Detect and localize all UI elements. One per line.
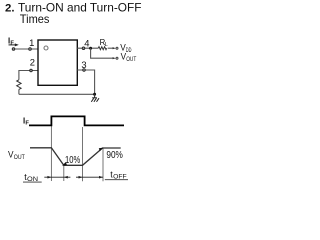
VOUT arrowhead bbox=[113, 57, 116, 59]
pin1 indicator circle bbox=[44, 46, 48, 50]
VDD arrowhead bbox=[113, 47, 116, 49]
svg-text:10%: 10% bbox=[65, 155, 80, 166]
IF waveform trace bbox=[29, 116, 124, 125]
svg-text:OUT: OUT bbox=[126, 56, 136, 63]
ground bbox=[92, 97, 97, 99]
wire pin1 bbox=[14, 48, 39, 50]
90% arrowhead bbox=[99, 148, 104, 152]
node: junction pin4 / VOUT branch bbox=[89, 47, 92, 50]
svg-text:OUT: OUT bbox=[14, 154, 25, 161]
wire RL to VDD terminal bbox=[108, 47, 113, 49]
IF current arrow bbox=[9, 44, 16, 46]
wire VOUT branch bbox=[91, 48, 113, 58]
pin3 dot bbox=[83, 69, 86, 72]
measurement line at IF fall bbox=[82, 127, 84, 181]
wire resistor to bottom rail bbox=[18, 89, 20, 94]
tON label underline bbox=[23, 181, 42, 183]
resistor R (series LED resistor) bbox=[17, 80, 21, 90]
svg-text:2: 2 bbox=[30, 56, 35, 67]
resistor RL bbox=[98, 47, 106, 50]
terminal dot left of pin1 wire bbox=[12, 48, 15, 51]
svg-text:3: 3 bbox=[81, 59, 86, 70]
wire junction to ground bbox=[94, 94, 96, 97]
VDD terminal circle bbox=[116, 47, 118, 49]
svg-text:F: F bbox=[25, 120, 29, 126]
VOUT terminal circle bbox=[116, 57, 118, 59]
svg-text:4: 4 bbox=[84, 37, 89, 48]
svg-text:DD: DD bbox=[126, 47, 132, 54]
VOUT waveform trace bbox=[30, 148, 121, 166]
svg-text:2.: 2. bbox=[5, 3, 15, 15]
wire pin3 bbox=[77, 70, 94, 94]
wire pin2 bbox=[19, 71, 38, 80]
10% arrowhead bbox=[62, 162, 67, 166]
svg-text:90%: 90% bbox=[106, 150, 123, 161]
measurement line at IF rise bbox=[50, 125, 52, 181]
pin4 dot bbox=[82, 47, 85, 50]
IC package box bbox=[38, 40, 77, 85]
measurement line at 10% point bbox=[63, 165, 65, 181]
tOFF label underline bbox=[105, 179, 128, 181]
pin2 dot bbox=[30, 69, 33, 72]
bottom rail wire bbox=[19, 93, 95, 95]
measurement line at 90% point bbox=[102, 148, 104, 181]
wire pin4 bbox=[77, 47, 98, 49]
svg-text:Times: Times bbox=[20, 13, 50, 26]
pin1 dot bbox=[29, 48, 32, 51]
svg-text:L: L bbox=[105, 42, 108, 48]
tOFF dimension arrow bbox=[76, 176, 103, 178]
tON dimension arrow bbox=[44, 176, 70, 178]
svg-text:F: F bbox=[10, 41, 14, 47]
svg-text:1: 1 bbox=[29, 37, 34, 48]
node: bottom rail / ground junction bbox=[93, 93, 96, 96]
